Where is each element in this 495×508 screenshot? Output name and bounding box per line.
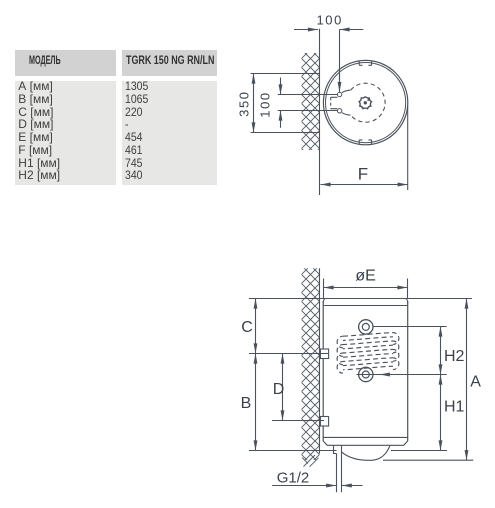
extension lines (top view left) (251, 73, 320, 75)
bracket arms to inner circle (342, 90, 350, 115)
wall hatch (front view) (302, 268, 320, 460)
bracket hook circles (337, 92, 341, 96)
reference line lower bracket (D) (272, 420, 324, 422)
svg-text:A: A (470, 374, 481, 391)
reference line tank top (249, 298, 472, 300)
dimension øE extension lines (324, 279, 408, 299)
svg-text:H2: H2 (444, 348, 465, 365)
dimension 100 top: line (294, 29, 318, 31)
right extension line (top view) (407, 106, 409, 190)
tank outer circle (top view) (323, 60, 407, 144)
dimension A (466, 299, 468, 461)
bottom tab (359, 140, 371, 144)
dimension H1 (440, 375, 442, 451)
dimension H2 (440, 327, 442, 375)
dimension D (282, 354, 284, 421)
heat exchanger coil (dashed serpentine) (337, 333, 399, 374)
outlet fitting (334, 445, 342, 453)
dimension B (255, 354, 257, 451)
svg-text:100: 100 (316, 13, 343, 28)
tank sides (323, 301, 408, 441)
table header cell МОДЕЛЬ (15, 50, 116, 76)
bottom dome (341, 445, 390, 460)
line from upper circle to right (373, 326, 447, 328)
table row labels (18, 80, 60, 182)
dimension C (255, 299, 257, 354)
dimension øE line (324, 287, 408, 289)
line from lower circle to right with arrow (357, 374, 447, 376)
center fitting knob (359, 97, 371, 109)
wall bracket upper (front view) (320, 349, 328, 359)
inner tank dashed circle (351, 83, 386, 122)
svg-text:D: D (273, 381, 285, 398)
dimension 100 vertical arrows (280, 78, 282, 95)
svg-text:F: F (358, 165, 368, 184)
wall bracket plate (top view, dashed) (330, 97, 332, 108)
reference line bottom rim (249, 450, 447, 452)
table body cell labels (15, 81, 116, 185)
header text МОДЕЛЬ (29, 54, 61, 66)
reference line dome bottom (A) (383, 459, 473, 461)
svg-text:H1: H1 (444, 399, 465, 416)
top tab (359, 61, 371, 65)
outlet pipe G1/2 (337, 454, 342, 493)
table row values (125, 80, 148, 182)
wall line (front view) (319, 268, 321, 453)
dimension 350 line (253, 74, 255, 133)
svg-text:100: 100 (257, 91, 272, 118)
wall line (top view) (319, 29, 321, 195)
extension line to anchor (top view) (339, 30, 341, 81)
table body cell values (122, 81, 218, 185)
svg-text:B: B (241, 395, 252, 412)
upper pipe connection circle (359, 320, 373, 334)
header text TGRK 150 NG RN/LN (126, 54, 214, 66)
svg-text:G1/2: G1/2 (277, 469, 310, 486)
anchor arrow (top view) (339, 70, 341, 92)
svg-text:C: C (241, 319, 253, 336)
tank inner jacket circle (top view) (326, 63, 406, 143)
table header cell TGRK 150 NG RN/LN (122, 50, 218, 76)
lower pipe connection circle (359, 367, 373, 381)
wall hatch (top view) (302, 53, 320, 150)
reference line upper bracket (249, 353, 328, 355)
tank bottom rim (323, 436, 408, 438)
dimension G1/2 (272, 485, 336, 487)
tank top cap (323, 299, 408, 306)
svg-text:øE: øE (355, 268, 375, 285)
svg-text:350: 350 (237, 90, 252, 117)
dimension F line (321, 184, 408, 186)
wall bracket lower (front view) (320, 417, 328, 427)
